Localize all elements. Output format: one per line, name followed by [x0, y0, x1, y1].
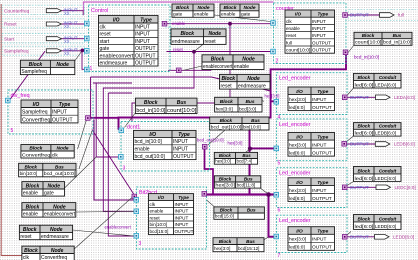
pin marker counter.reset [271, 49, 276, 54]
wire LEDD wire [347, 236, 375, 238]
svg-text:reset: reset [150, 215, 161, 220]
svg-text:Block: Block [176, 5, 189, 11]
svg-text:INPUT: INPUT [312, 26, 326, 31]
leader line hex|bcd118 table [261, 188, 268, 193]
svg-text:reset: reset [20, 234, 32, 240]
svg-text:endmeasure: endmeasure [238, 84, 266, 90]
map table reset-endmeasure [19, 225, 72, 240]
svg-text:Block: Block [357, 124, 370, 129]
svg-text:Block: Block [362, 33, 375, 38]
leader line bcd_in|count table [125, 112, 137, 128]
svg-text:bcd[15:0]: bcd[15:0] [150, 229, 169, 234]
wire net reset [167, 51, 272, 53]
svg-text:Convertfreq: Convertfreq [22, 152, 51, 158]
pin marker Led_encoder2.led [342, 142, 347, 147]
svg-text:Bus: Bus [242, 153, 251, 158]
svg-text:enableconvert: enableconvert [100, 53, 135, 59]
svg-text:bcd[15:0]: bcd[15:0] [215, 214, 234, 219]
svg-text:Block: Block [219, 153, 232, 158]
wire bus hex to Led_encoder2 [250, 147, 275, 149]
svg-text:XX: XX [64, 11, 70, 16]
svg-text:hex[3:0]: hex[3:0] [214, 246, 230, 251]
svg-text:enableconvert: enableconvert [44, 212, 76, 218]
svg-text:Block: Block [24, 164, 37, 169]
wire LEDB wire [347, 143, 376, 145]
page border left [1, 4, 28, 256]
svg-text:I/O: I/O [113, 17, 120, 23]
svg-text:Bus: Bus [55, 164, 64, 169]
pin marker counter.count [343, 50, 348, 55]
svg-text:Bus: Bus [177, 100, 187, 106]
selection dashed box full port net [349, 10, 418, 21]
map table bcd_out-bin [210, 117, 269, 130]
leader line conduit LEDA table [347, 88, 354, 96]
Bit2bcd I/O table [149, 194, 194, 235]
svg-text:OUTPUT: OUTPUT [52, 117, 73, 123]
svg-text:enable: enable [150, 209, 164, 214]
svg-text:Type: Type [317, 12, 328, 17]
Led_encoder4 I/O table [288, 227, 335, 251]
svg-text:clk: clk [100, 25, 107, 31]
svg-text:Convertfreq: Convertfreq [41, 255, 67, 260]
svg-text:Block: Block [29, 62, 43, 68]
svg-text:OUTPUT: OUTPUT [312, 105, 332, 111]
wire net enableconvert [91, 77, 271, 118]
svg-text:gate: gate [241, 12, 251, 18]
svg-text:XX: XX [64, 39, 70, 44]
pin marker counter.full [343, 13, 348, 18]
wire net endmeasure [108, 93, 134, 236]
svg-text:enable: enable [23, 191, 38, 197]
svg-text:Conduit: Conduit [379, 75, 397, 80]
wire Samplefreq [61, 50, 85, 52]
leader line hex|bcd1512 table [262, 237, 268, 241]
pin marker Led_encoder1.led [342, 95, 347, 100]
svg-text:led[6:0]: led[6:0] [289, 105, 305, 111]
map table enableconvert-enable [202, 55, 264, 70]
map table bin-bcd_out [19, 163, 76, 177]
div_freq I/O table [21, 100, 78, 123]
leader line count|bcd_in table [347, 45, 354, 54]
svg-text:3: 3 [123, 166, 126, 172]
svg-text:LEDC[6:0]: LEDC[6:0] [375, 176, 396, 181]
wire wire control out [168, 69, 211, 71]
leader line endmeasure|reset table [194, 44, 203, 51]
svg-text:led[6:0]: led[6:0] [355, 224, 374, 229]
svg-text:I/O: I/O [33, 102, 40, 108]
pin marker Bit2bcd.bin [134, 234, 139, 239]
svg-text:LEDC[6:0]: LEDC[6:0] [395, 185, 416, 190]
pin marker Bit2bcd.clk [134, 198, 139, 203]
leader line enableconvert|enable table [184, 66, 203, 70]
svg-text:I/O: I/O [149, 132, 156, 138]
junction node hex2 split [248, 147, 252, 151]
svg-text:6: 6 [278, 208, 281, 214]
svg-text:Block: Block [357, 216, 370, 221]
svg-text:Type: Type [178, 195, 189, 200]
svg-text:hex[3:0]: hex[3:0] [215, 159, 231, 164]
svg-text:enable: enable [135, 147, 150, 153]
svg-text:reset: reset [286, 33, 297, 38]
svg-text:OUTPUT: OUTPUT [350, 142, 369, 147]
svg-text:start: start [100, 39, 110, 45]
svg-text:Control: Control [91, 8, 108, 14]
leader line clk|Convertfreq table [74, 197, 132, 249]
svg-text:INPUT: INPUT [175, 222, 189, 227]
svg-text:OUTPUT: OUTPUT [312, 245, 332, 251]
svg-text:Block: Block [220, 207, 233, 212]
svg-text:led[6:0]: led[6:0] [289, 151, 305, 157]
svg-text:Conduit: Conduit [379, 216, 397, 221]
leader line hex|bcd30 table [252, 97, 264, 101]
svg-text:Led_encoder: Led_encoder [279, 218, 311, 224]
wire bus bcd[15:0] [206, 193, 275, 195]
svg-text:led[6:0]: led[6:0] [289, 245, 305, 251]
map table bcd15 [214, 207, 265, 219]
pin marker div_freq.Samplefreq [6, 98, 11, 103]
map table Convertfreq-clk [21, 145, 74, 159]
svg-text:INPUT: INPUT [312, 97, 326, 103]
svg-text:I/O: I/O [296, 135, 303, 141]
wire net enable [167, 23, 272, 25]
Control I/O table [99, 15, 159, 66]
port symbol input port Counterfreq [46, 9, 61, 13]
svg-text:Type: Type [178, 132, 190, 138]
outer diagram boundary [84, 2, 274, 11]
block counter U2 [274, 3, 347, 65]
pin marker dcnt1.bcd_out [202, 144, 207, 149]
svg-text:hex[3:0]: hex[3:0] [289, 97, 306, 103]
svg-text:Bus: Bus [244, 176, 253, 181]
pin marker Bit2bcd.bcd out [202, 192, 207, 197]
svg-text:Bus: Bus [393, 33, 402, 38]
pin marker Control.clk [85, 21, 90, 26]
svg-text:1: 1 [90, 66, 93, 72]
svg-text:bcd[3:0]: bcd[3:0] [239, 106, 256, 112]
svg-text:div_freq: div_freq [11, 93, 30, 99]
block Led_encoder U5b [277, 119, 348, 167]
svg-text:led[6:0]: led[6:0] [289, 196, 305, 202]
svg-text:INPUT: INPUT [135, 32, 150, 38]
pin marker Led_encoder2.hex [274, 146, 279, 151]
svg-text:Node: Node [57, 145, 69, 151]
svg-text:Block: Block [211, 56, 225, 62]
svg-text:bcd[15:12]: bcd[15:12] [238, 246, 259, 251]
map table bcd_in-count [135, 98, 197, 114]
wire net enable down [132, 24, 230, 122]
svg-text:bin[10:0]: bin[10:0] [150, 222, 168, 227]
svg-text:bcd_out[10:0]: bcd_out[10:0] [135, 154, 166, 160]
svg-text:LEDB[6:0]: LEDB[6:0] [375, 131, 396, 136]
svg-text:LEDA[6:0]: LEDA[6:0] [375, 82, 396, 87]
svg-text:Type: Type [317, 180, 328, 186]
port symbol output port LEDA[6:0] [376, 95, 391, 100]
pin marker Led_encoder1.hex [274, 100, 279, 105]
svg-text:Block: Block [180, 31, 194, 37]
svg-text:XX: XX [64, 24, 70, 29]
counter I/O table [285, 10, 335, 53]
svg-text:LEDA[6:0]: LEDA[6:0] [394, 95, 415, 100]
svg-text:Type: Type [317, 89, 328, 95]
svg-text:5: 5 [278, 161, 281, 167]
svg-text:Node: Node [56, 62, 69, 68]
svg-text:endmeasure: endmeasure [41, 234, 69, 240]
wire net reset down [103, 52, 194, 212]
svg-text:LEDD[6:0]: LEDD[6:0] [375, 224, 396, 229]
leader line bcd15 table [207, 200, 216, 208]
pin marker div_freq.Convertfreq [86, 116, 91, 121]
map table led-LEDA [354, 73, 402, 88]
map table led-LEDD [354, 215, 402, 230]
wire net gate [93, 83, 132, 157]
svg-text:OUTPUT: OUTPUT [312, 196, 332, 202]
leader line reset|endmeasure table low [73, 230, 134, 236]
wire net Convertfreq vertical [94, 120, 134, 201]
svg-text:Convertfreq: Convertfreq [22, 117, 51, 123]
svg-text:enable: enable [221, 12, 236, 18]
wire Reset [61, 23, 85, 25]
svg-text:reset: reset [221, 84, 233, 90]
wire Counterfreq [61, 11, 83, 16]
svg-text:I/O: I/O [296, 180, 303, 186]
svg-text:Type: Type [317, 229, 328, 235]
svg-text:Samplefreq: Samplefreq [4, 49, 29, 55]
map table count-bcd_in [354, 32, 412, 45]
svg-text:clk: clk [150, 202, 156, 207]
junction node reset [192, 50, 196, 54]
port symbol output port LEDB[6:0] [375, 142, 390, 147]
svg-text:LEDB[6:0]: LEDB[6:0] [394, 142, 415, 147]
svg-text:OUTPUT: OUTPUT [312, 40, 331, 45]
pin marker Led_encoder3.hex [274, 193, 279, 198]
svg-text:INPUT: INPUT [312, 33, 326, 38]
svg-text:INPUT: INPUT [312, 237, 326, 243]
svg-text:enable: enable [234, 64, 249, 70]
pin marker Control.bottom out [177, 68, 182, 73]
port symbol output port LEDC[6:0] [376, 185, 391, 190]
svg-text:count[10:0]: count[10:0] [286, 48, 310, 53]
wire count out stub [345, 53, 347, 55]
pin marker dcnt1.enable [119, 155, 124, 160]
map table endmeasure-reset [171, 29, 226, 45]
svg-text:led[6:0]: led[6:0] [355, 176, 374, 181]
svg-text:hex[3:0]: hex[3:0] [216, 106, 233, 112]
svg-text:bcd_out[10:0]: bcd_out[10:0] [197, 138, 224, 143]
leader line Samplefreq table [74, 52, 82, 63]
junction node Samplefreq [81, 49, 85, 53]
svg-text:full: full [286, 40, 292, 45]
wire bus bcd drop to Led_encoder4 [269, 195, 275, 237]
svg-text:endmeasure: endmeasure [100, 60, 128, 66]
svg-text:hex[3:0]: hex[3:0] [289, 188, 306, 194]
svg-text:dcnt1: dcnt1 [127, 125, 140, 131]
svg-text:INPUT: INPUT [175, 202, 189, 207]
svg-text:Type: Type [140, 17, 152, 23]
svg-text:enable: enable [23, 212, 38, 218]
junction node bcd split [266, 192, 271, 197]
svg-text:Node: Node [53, 204, 66, 210]
wire bus hex to Led_encoder1 [271, 100, 275, 102]
svg-text:Bus: Bus [247, 207, 256, 212]
svg-text:Type: Type [317, 135, 328, 141]
svg-text:OUTPUT: OUTPUT [135, 60, 156, 66]
leader line conduit LEDD table [347, 232, 352, 236]
pin marker dcnt1.bcd_in [119, 128, 124, 133]
svg-text:OUTPUT: OUTPUT [312, 151, 332, 157]
pin marker Led_encoder4.led [342, 235, 347, 240]
wire LEDC wire [347, 186, 376, 188]
svg-text:OUTPUT: OUTPUT [350, 234, 369, 239]
svg-text:INPUT: INPUT [135, 25, 150, 31]
svg-text:gate: gate [173, 12, 183, 18]
wire bus bcd riser [249, 129, 251, 195]
svg-text:Start: Start [4, 36, 15, 42]
svg-text:Block: Block [219, 239, 232, 244]
port symbol input port Start [46, 37, 61, 41]
svg-text:enable: enable [172, 21, 186, 26]
svg-text:Block: Block [220, 99, 233, 105]
svg-text:Block: Block [220, 118, 233, 123]
svg-text:gate: gate [44, 191, 54, 197]
pin marker Control.gate out [162, 21, 167, 26]
svg-text:Bus: Bus [251, 118, 260, 123]
block Control U1 [89, 5, 171, 72]
svg-text:INPUT: INPUT [312, 143, 326, 149]
leader line bcd_out|bin table [208, 130, 225, 145]
svg-text:INPUT: INPUT [135, 39, 150, 45]
svg-text:Node: Node [50, 227, 63, 233]
svg-text:Node: Node [247, 76, 260, 82]
svg-text:Block: Block [144, 100, 158, 106]
map table hex-bcd74 [214, 152, 257, 164]
Led_encoder1 I/O table [288, 87, 335, 111]
svg-text:Node: Node [51, 248, 64, 254]
svg-text:bcd_out[10:0]: bcd_out[10:0] [44, 171, 76, 176]
pin marker counter.clk [271, 21, 276, 26]
svg-text:bcd_in[10:0]: bcd_in[10:0] [383, 40, 411, 45]
selection dashed box Reset port [2, 19, 85, 28]
svg-text:bcd_in[10:0]: bcd_in[10:0] [136, 108, 166, 114]
svg-text:Counterfreq: Counterfreq [4, 8, 30, 14]
pin marker Bit2bcd.enable [134, 209, 139, 214]
svg-text:hex[3:0]: hex[3:0] [228, 140, 243, 145]
pin marker Control.reset [85, 36, 90, 41]
svg-text:reset: reset [173, 47, 184, 52]
svg-text:Bus: Bus [246, 239, 255, 244]
selection dashed box Samplefreq port [2, 46, 85, 55]
svg-text:3: 3 [139, 241, 142, 247]
map table hex-bcd118 [214, 176, 260, 188]
pin marker Bit2bcd.clk top [132, 194, 137, 199]
svg-text:bcd[7:4]: bcd[7:4] [237, 159, 253, 164]
svg-text:Node: Node [198, 5, 210, 11]
map table clk-Convertfreq [22, 246, 74, 260]
svg-text:full: full [398, 13, 404, 18]
svg-text:hex[3:0]: hex[3:0] [215, 183, 235, 188]
svg-text:Block: Block [23, 227, 37, 233]
svg-text:Block: Block [357, 75, 370, 80]
pin marker Led_encoder4.hex [274, 234, 279, 239]
svg-text:INPUT: INPUT [173, 139, 188, 145]
svg-text:Block: Block [357, 168, 370, 173]
block Bit2bcd U3b [137, 187, 207, 249]
svg-text:Block: Block [221, 76, 235, 82]
dcnt1 I/O table [134, 130, 197, 160]
svg-text:Led_encoder: Led_encoder [279, 171, 311, 177]
svg-text:bin[10:0]: bin[10:0] [243, 124, 261, 129]
map table Samplefreq [20, 60, 74, 75]
wire bus count[10:0] [119, 55, 347, 131]
port symbol output port full [380, 13, 395, 18]
svg-text:hex[3:0]: hex[3:0] [289, 143, 306, 149]
svg-text:OUTPUT: OUTPUT [312, 48, 331, 53]
svg-text:enableconvert: enableconvert [203, 64, 233, 70]
wire LEDA wire [347, 96, 376, 98]
map table reset-endmeasure2 [220, 74, 271, 89]
map table led-LEDC [354, 167, 402, 182]
svg-text:I/O: I/O [295, 12, 302, 17]
wire net Convertfreq diagonal [92, 130, 134, 196]
port symbol input port Samplefreq [46, 49, 61, 53]
leader line conduit LEDB table [346, 136, 354, 142]
map table enable-gate2 [220, 4, 259, 18]
wire bus bcd_out[10:0] [205, 149, 214, 194]
svg-text:enableconvert: enableconvert [105, 225, 132, 230]
svg-text:OUTPUT: OUTPUT [135, 46, 156, 52]
svg-text:Led_encoder: Led_encoder [279, 122, 311, 128]
wire full wire [348, 14, 380, 16]
svg-text:bin[10:0]: bin[10:0] [20, 171, 38, 176]
svg-text:Block: Block [26, 204, 40, 210]
svg-text:enable: enable [194, 12, 209, 18]
svg-text:reset: reset [205, 39, 217, 45]
Led_encoder2 I/O table [288, 133, 335, 157]
svg-text:Block: Block [219, 176, 232, 181]
wire Samplefreq to div_freq diagonal [10, 51, 45, 99]
Led_encoder3 I/O table [288, 178, 335, 202]
selection dashed box enable net [166, 19, 278, 27]
leader line enable|gate table [65, 157, 97, 188]
wire bus div_freq out [90, 117, 119, 119]
svg-text:INPUT: INPUT [173, 147, 188, 153]
svg-text:OUTPUT: OUTPUT [135, 53, 156, 59]
block Led_encoder U6 [277, 168, 348, 214]
selection dashed box Start port [2, 34, 85, 43]
svg-text:Bus: Bus [245, 99, 254, 105]
svg-text:clk: clk [286, 19, 292, 24]
svg-text:Led_encoder: Led_encoder [279, 76, 311, 82]
svg-text:I/O: I/O [296, 229, 303, 235]
svg-text:XX: XX [64, 51, 70, 56]
selection dashed box Counterfreq port [2, 5, 85, 14]
svg-text:Samplefreq: Samplefreq [22, 110, 48, 116]
svg-text:bcd_in[10:0]: bcd_in[10:0] [354, 55, 379, 60]
leader line hex|bcd74 table [246, 149, 251, 152]
map table gate-enable [172, 4, 214, 18]
svg-text:Conduit: Conduit [379, 168, 397, 173]
map table hex-bcd1512 [213, 238, 264, 252]
block Led_encoder U7 [277, 215, 348, 259]
svg-text:bcd_in[10:0]: bcd_in[10:0] [135, 139, 163, 145]
svg-text:I/O: I/O [158, 195, 165, 200]
svg-text:Node: Node [48, 183, 61, 189]
svg-text:Node: Node [244, 5, 256, 11]
svg-text:OUTPUT: OUTPUT [173, 154, 194, 160]
svg-text:Type: Type [59, 102, 71, 108]
svg-text:INPUT: INPUT [175, 215, 189, 220]
svg-text:Block: Block [24, 248, 38, 254]
leader line enable|enableconvert table [76, 210, 134, 213]
